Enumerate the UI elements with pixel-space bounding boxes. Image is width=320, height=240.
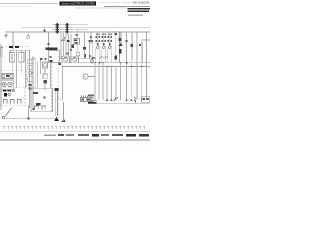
header dotted leader line	[99, 2, 133, 4]
connector bundle CN2	[66, 23, 69, 33]
below-bus wire b5	[106, 66, 108, 100]
wire end arrow b5	[106, 99, 108, 101]
bus line L2 main	[5, 31, 150, 33]
dashed wire right	[20, 46, 31, 48]
main bus pair upper	[60, 58, 96, 60]
bottom run wire	[5, 118, 58, 120]
below-bus wire b7	[115, 66, 117, 100]
header title bar	[60, 1, 97, 5]
wire label blob b3	[66, 53, 68, 55]
feeder tee	[10, 50, 31, 52]
wire drop w1	[60, 33, 62, 59]
top border line lower	[0, 6, 32, 8]
blob x115 top	[115, 56, 117, 60]
right wire col r3	[136, 32, 138, 100]
switch contact 3	[18, 100, 22, 104]
bus line L1 top	[22, 27, 150, 29]
right box mark	[139, 44, 141, 46]
blob cluster above bus	[84, 54, 94, 59]
wire drop w3	[65, 34, 67, 57]
below-bus wire b8	[120, 63, 122, 100]
motor box with two circles	[1, 80, 14, 90]
wire drop w5	[70, 34, 72, 57]
connector bundle CN1	[56, 23, 59, 33]
note text block line 2	[128, 10, 150, 12]
wire drop w2	[63, 33, 65, 56]
top right rule	[104, 5, 150, 7]
top marks mid chain	[40, 58, 46, 60]
wire drop w4	[68, 34, 70, 57]
left edge wire	[0, 44, 2, 110]
caption dotted text line	[76, 7, 127, 9]
blob r1 dot	[126, 40, 128, 42]
sensor pair S1	[89, 40, 94, 59]
dashed panel right	[26, 71, 28, 88]
fuse box F1	[10, 52, 15, 62]
node stem	[27, 32, 29, 35]
footer text mid	[58, 134, 74, 136]
wire end mark r col	[125, 99, 127, 101]
harness bottom arrow	[54, 117, 59, 121]
blob r2 label	[131, 44, 134, 47]
footer rule	[0, 139, 150, 141]
terminal comb connector	[81, 96, 94, 102]
node circle on bus	[27, 35, 30, 38]
injector labels row 2	[96, 40, 112, 42]
bottom bus left text	[88, 95, 97, 101]
bottom terminal baseline	[88, 102, 150, 104]
wire label blob b2	[70, 49, 72, 51]
bus junction dots	[62, 62, 142, 67]
legend ruler ticks	[4, 127, 144, 130]
ignition switch dashed box	[1, 88, 26, 106]
label 15	[58, 63, 61, 65]
note text block line 1	[128, 8, 151, 10]
right wire col r1	[126, 32, 128, 100]
wire label blob b	[71, 45, 74, 48]
sensor chain box with circle	[43, 62, 48, 74]
below-bus wire b2	[94, 63, 96, 100]
relay box K2	[49, 51, 60, 63]
label above K1	[76, 34, 78, 36]
left edge small box	[0, 47, 3, 56]
top border line upper	[0, 3, 58, 5]
chassis dashed boundary vertical	[58, 56, 60, 118]
wire x40	[40, 58, 42, 74]
ruler baseline	[0, 131, 150, 133]
sheet background	[0, 0, 150, 150]
tick dot x44	[44, 30, 46, 32]
footer text left	[44, 134, 56, 136]
starter switch diagonal	[2, 108, 12, 119]
wire end mark r col2	[130, 99, 132, 101]
curly symbol	[135, 97, 136, 102]
loop symbol n2	[105, 57, 108, 59]
sensor column with arrow	[115, 32, 123, 63]
lamp box B1	[62, 56, 70, 62]
wires mid-left verticals	[17, 50, 26, 88]
gauge wire to column	[88, 76, 95, 78]
fuse box F2	[19, 52, 24, 62]
right box corner	[142, 39, 150, 41]
main bus pair mid	[58, 62, 150, 64]
small gray note text	[128, 14, 143, 16]
bottom run drop	[28, 106, 30, 119]
injector labels row 1	[96, 36, 112, 38]
ignition text blobs	[3, 89, 15, 96]
below-bus wire b6	[111, 66, 113, 100]
main harness double wire	[55, 88, 59, 116]
below-bus wire b3	[98, 63, 100, 100]
lamp circle DS1	[76, 52, 80, 56]
bus line short upper	[52, 24, 88, 26]
dashed boundary x51	[51, 63, 53, 113]
jog wire to right	[59, 98, 64, 122]
wire drop w7	[84, 33, 86, 59]
wire drop w6	[77, 30, 79, 52]
lamp box B2	[71, 56, 79, 62]
injector symbols row	[96, 43, 111, 48]
loop symbol n1	[100, 57, 103, 59]
switch contact 1	[4, 100, 8, 104]
resistor squiggle	[114, 97, 118, 101]
wire drop x48	[48, 32, 50, 51]
gauge circle G1	[83, 74, 88, 79]
wire label blob c	[83, 47, 86, 50]
switch contact 2	[11, 100, 15, 104]
ground text row	[88, 102, 97, 104]
injector column array	[90, 32, 112, 63]
tick on bus x116	[115, 31, 117, 63]
bus line short mid	[52, 29, 88, 31]
relay label text	[46, 48, 58, 50]
junction dot x48	[48, 43, 50, 45]
second harness arrow	[62, 118, 66, 122]
tick on bus x44	[44, 29, 46, 32]
faint wire x37	[37, 62, 39, 88]
battery terminal mark	[5, 35, 8, 38]
fuse box tails	[12, 62, 21, 74]
relay box K1	[74, 39, 80, 45]
dark blob col120	[119, 49, 121, 53]
right subcolumn components	[28, 50, 33, 108]
sensor chain box 2	[43, 74, 48, 90]
wire x50	[50, 63, 52, 89]
tall narrow box left	[31, 59, 35, 89]
dashed panel top	[0, 70, 27, 72]
below-bus wire b1	[62, 66, 64, 100]
below-bus wire b4	[102, 63, 104, 100]
svg-text:Section: ELECTRICAL SYSTEM: Section: ELECTRICAL SYSTEM	[62, 1, 95, 5]
control unit box	[31, 88, 53, 112]
dashed wire left	[0, 46, 9, 48]
sender circle G2	[90, 56, 93, 64]
left feed vertical x13	[12, 32, 14, 50]
legend ruler dots	[3, 126, 144, 127]
dot x116	[115, 33, 117, 35]
bottom run junction dot	[28, 118, 30, 120]
right wire col r5	[146, 32, 148, 100]
horn relay box with coils	[1, 74, 14, 79]
footer text right group	[78, 134, 149, 137]
wire end arrow b6	[110, 99, 112, 101]
fuse label text dark	[1, 46, 19, 49]
main bus pair lower	[62, 65, 150, 67]
svg-text:MK-1418/1420: MK-1418/1420	[133, 1, 149, 5]
right terminal box	[142, 97, 151, 103]
injector labels row 0	[96, 33, 112, 35]
right wire col r4	[141, 40, 143, 100]
wire label blob a	[67, 40, 70, 42]
right wire col r2 double	[131, 32, 132, 100]
